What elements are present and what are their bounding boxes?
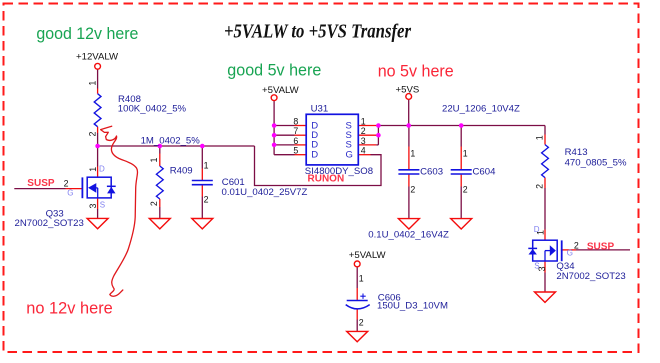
svg-text:3: 3	[361, 136, 366, 146]
svg-text:D: D	[311, 149, 318, 160]
svg-text:G: G	[567, 249, 573, 258]
svg-text:2: 2	[463, 184, 468, 194]
svg-text:+5VS: +5VS	[396, 84, 420, 95]
svg-text:22U_1206_10V4Z: 22U_1206_10V4Z	[442, 103, 520, 114]
svg-text:4: 4	[361, 146, 366, 156]
svg-text:D: D	[99, 164, 105, 173]
svg-text:100K_0402_5%: 100K_0402_5%	[118, 103, 187, 114]
svg-text:good 5v here: good 5v here	[227, 61, 321, 80]
svg-text:G: G	[67, 189, 73, 198]
svg-text:+5VALW: +5VALW	[262, 85, 300, 96]
svg-text:D: D	[534, 225, 540, 234]
svg-text:SUSP: SUSP	[587, 241, 615, 252]
svg-text:0.01U_0402_25V7Z: 0.01U_0402_25V7Z	[222, 187, 308, 198]
svg-text:2: 2	[87, 131, 97, 136]
svg-text:1: 1	[204, 161, 209, 171]
svg-text:S: S	[534, 261, 539, 270]
svg-text:1: 1	[361, 117, 366, 127]
svg-text:2: 2	[534, 184, 544, 189]
svg-text:2: 2	[410, 184, 415, 194]
svg-text:1: 1	[359, 274, 364, 284]
svg-text:+5VALW to +5VS Transfer: +5VALW to +5VS Transfer	[224, 21, 411, 43]
svg-text:no 12v here: no 12v here	[26, 299, 113, 318]
svg-text:8: 8	[293, 117, 298, 127]
svg-text:2: 2	[149, 201, 159, 206]
svg-text:5: 5	[293, 146, 298, 156]
svg-text:1: 1	[87, 81, 97, 86]
svg-text:1: 1	[88, 167, 98, 172]
svg-text:1: 1	[149, 157, 159, 162]
svg-text:RUNON: RUNON	[308, 174, 345, 185]
svg-text:1: 1	[463, 149, 468, 159]
svg-text:2N7002_SOT23: 2N7002_SOT23	[556, 271, 625, 282]
svg-text:SUSP: SUSP	[27, 178, 55, 189]
svg-text:2: 2	[361, 126, 366, 136]
svg-text:1: 1	[534, 135, 544, 140]
svg-text:470_0805_5%: 470_0805_5%	[565, 157, 627, 168]
svg-text:1: 1	[410, 149, 415, 159]
svg-text:1M_0402_5%: 1M_0402_5%	[141, 135, 201, 146]
svg-text:+12VALW: +12VALW	[76, 52, 119, 63]
svg-text:2: 2	[574, 241, 579, 251]
svg-text:G: G	[346, 149, 353, 160]
svg-text:7: 7	[293, 126, 298, 136]
svg-text:2: 2	[204, 195, 209, 205]
svg-text:C603: C603	[420, 166, 443, 177]
svg-text:C604: C604	[473, 166, 497, 177]
svg-text:2N7002_SOT23: 2N7002_SOT23	[15, 218, 84, 229]
svg-text:150U_D3_10VM: 150U_D3_10VM	[377, 301, 448, 312]
svg-text:R409: R409	[170, 166, 193, 177]
svg-text:6: 6	[293, 136, 298, 146]
svg-text:S: S	[100, 200, 105, 209]
svg-text:0.1U_0402_16V4Z: 0.1U_0402_16V4Z	[368, 230, 449, 241]
svg-text:no 5v here: no 5v here	[378, 62, 454, 81]
svg-text:2: 2	[64, 179, 69, 189]
svg-text:3: 3	[88, 203, 98, 208]
svg-text:U31: U31	[311, 103, 329, 114]
svg-text:2: 2	[359, 317, 364, 327]
svg-text:good 12v here: good 12v here	[36, 24, 138, 43]
svg-text:+5VALW: +5VALW	[349, 250, 387, 261]
